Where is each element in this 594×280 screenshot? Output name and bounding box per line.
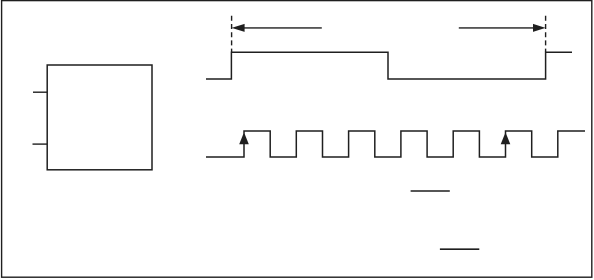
overline bar node B <box>440 248 479 250</box>
pin lead input 1 <box>33 91 47 93</box>
pin lead input 2 <box>33 143 48 145</box>
period arrow right <box>459 24 546 32</box>
period arrow left <box>232 24 322 32</box>
output signal waveform <box>206 52 572 79</box>
overline bar node A <box>411 190 450 192</box>
dashed marker line right <box>545 16 547 52</box>
dashed marker line left <box>231 16 233 52</box>
clock edge arrow 2 <box>501 132 511 144</box>
IC block U1 <box>47 65 152 170</box>
clock edge arrow 1 <box>239 132 249 144</box>
clock waveform <box>206 131 585 157</box>
